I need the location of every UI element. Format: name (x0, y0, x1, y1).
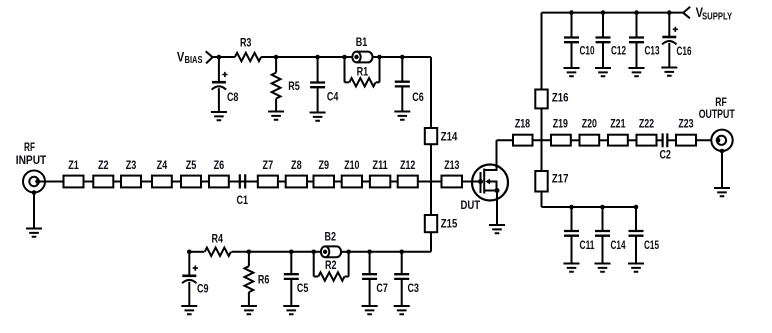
svg-text:Z17: Z17 (552, 173, 569, 186)
capacitor C7 (362, 274, 377, 279)
wire Z13 to DUT gate (462, 181, 481, 183)
ground at C9 (181, 306, 197, 314)
wire node to C4 (317, 57, 319, 83)
impedance element Z3 (121, 176, 141, 188)
wire C10 to ground (571, 42, 573, 68)
wire C4 node to B1 node (318, 56, 345, 58)
impedance element Z16 (535, 90, 547, 109)
svg-text:Z7: Z7 (263, 159, 274, 172)
capacitor C4 (310, 83, 325, 88)
svg-text:Z16: Z16 (552, 92, 569, 105)
svg-text:R1: R1 (357, 66, 369, 79)
wire Z20 to Z21 (599, 139, 608, 141)
wire C13 to ground (636, 42, 638, 68)
junction VBIAS / C8 (217, 55, 222, 60)
svg-text:C2: C2 (659, 149, 671, 162)
resistor R4 (205, 248, 231, 256)
wire C5 node to B2 node (291, 251, 313, 253)
svg-text:Z22: Z22 (639, 118, 655, 131)
resistor R5 (272, 73, 281, 99)
svg-text:Z5: Z5 (186, 159, 197, 172)
ground at C10 (564, 68, 580, 76)
svg-text:R2: R2 (325, 259, 337, 272)
svg-text:Z2: Z2 (98, 159, 109, 172)
capacitor C13 (629, 38, 644, 43)
wire Z21 to Z22 (628, 139, 637, 141)
ground at RF input (26, 229, 42, 237)
wire bead B1 to node (373, 56, 380, 58)
capacitor C11 (564, 231, 579, 236)
resistor R2 zigzag (318, 272, 344, 280)
wire C3 node to branch corner (402, 251, 431, 253)
svg-text:C15: C15 (644, 239, 659, 252)
impedance element Z1 (64, 176, 84, 188)
junction R3 / R5 (274, 55, 279, 60)
junction C9 / R4 (187, 250, 192, 255)
svg-text:Z8: Z8 (291, 159, 302, 172)
wire C7 to ground (369, 279, 371, 306)
wire C7 node to C3 node (370, 251, 402, 253)
wire connector to Z1 (38, 181, 64, 183)
resistor R1 (parallel with B1) (344, 57, 346, 82)
impedance element Z4 (152, 176, 172, 188)
svg-text:Z6: Z6 (214, 159, 225, 172)
svg-text:Z9: Z9 (318, 159, 329, 172)
wire connector shield to ground (33, 193, 35, 229)
wire B1 node to C6 node (380, 56, 403, 58)
wire top bias line to Z14 (430, 57, 432, 128)
DUT source stub (484, 190, 497, 192)
wire node to bead B2 (314, 251, 321, 253)
wire R6 to ground (248, 292, 250, 306)
capacitor C1 (series) (240, 174, 245, 188)
ground at RF output (714, 188, 730, 196)
svg-text:Z11: Z11 (373, 159, 389, 172)
ground at C7 (362, 306, 378, 314)
wire Z10 lead (334, 181, 342, 183)
ground at C13 (629, 68, 645, 76)
junction C6 (400, 55, 405, 60)
ground at C8 (211, 112, 227, 120)
wire node to C6 (401, 57, 403, 82)
resistor R3 (235, 53, 261, 61)
wire C16 to ground (668, 43, 670, 68)
junction B1/R1 left (342, 55, 347, 60)
ground at C14 (595, 264, 611, 272)
junction C14 (600, 205, 605, 210)
resistor R6 (245, 266, 254, 292)
ferrite bead B1 (357, 52, 373, 63)
junction C3 (399, 250, 404, 255)
svg-text:Z12: Z12 (400, 159, 416, 172)
svg-text:Z21: Z21 (610, 118, 626, 131)
impedance element Z17 (535, 171, 547, 192)
wire Z6 lead (201, 181, 209, 183)
wire node to C5 (290, 252, 292, 274)
wire Z5 lead (172, 181, 181, 183)
impedance element Z23 (676, 135, 696, 146)
wire output shield to ground (721, 151, 723, 188)
svg-text:C7: C7 (376, 282, 388, 295)
ground at C6 (394, 112, 410, 120)
svg-text:B2: B2 (325, 231, 337, 244)
wire C9 to ground (188, 282, 190, 306)
wire B2 node to C7 node (349, 251, 370, 253)
RF INPUT connector J1 (23, 171, 45, 193)
wire R5 node to C4 node (276, 56, 318, 58)
svg-text:INPUT: INPUT (16, 154, 47, 167)
junction C10 (569, 10, 574, 15)
wire Z23 to output connector (696, 139, 718, 141)
wire Z14 to main line to Z15 (430, 144, 432, 215)
wire rail to C10 (571, 13, 573, 38)
wire Z12 lead (390, 181, 397, 183)
svg-text:Z10: Z10 (344, 159, 360, 172)
impedance element Z9 (314, 176, 335, 188)
wire Z22 to C2 (657, 139, 663, 141)
svg-text:C3: C3 (407, 282, 419, 295)
ground at R6 (241, 306, 257, 314)
wire Z17 to bypass rail (541, 192, 543, 208)
svg-text:C12: C12 (611, 45, 626, 58)
ground at R5 (268, 112, 284, 120)
junction C12 (601, 10, 606, 15)
ground at C16 (661, 68, 677, 76)
svg-text:Z3: Z3 (126, 159, 137, 172)
VBIAS terminal arrow (206, 51, 213, 63)
wire C14 to ground (602, 236, 604, 264)
wire rail to C14 (602, 207, 604, 231)
capacitor C12 (596, 38, 611, 43)
impedance element Z6 (209, 176, 229, 188)
junction source/body (495, 188, 500, 193)
wire supply rail (542, 12, 684, 14)
junction R6 (247, 250, 252, 255)
svg-text:V: V (177, 49, 184, 64)
impedance element Z5 (181, 176, 201, 188)
wire rail to C12 (602, 13, 604, 38)
junction C16 (667, 10, 672, 15)
wire node to C9 (188, 252, 190, 276)
wire Z9 lead (307, 181, 314, 183)
svg-text:Z4: Z4 (157, 159, 168, 172)
wire node to C7 (369, 252, 371, 274)
svg-text:C13: C13 (645, 45, 660, 58)
RF OUTPUT connector J2 (711, 130, 732, 151)
capacitor C10 (564, 38, 579, 43)
ground at C12 (595, 68, 611, 76)
capacitor C5 (284, 274, 299, 279)
transistor DUT (MOSFET) (472, 165, 508, 201)
svg-text:C11: C11 (580, 239, 595, 252)
wire C11 to ground (571, 236, 573, 264)
svg-text:Z23: Z23 (678, 118, 694, 131)
wire Z4 lead (141, 181, 152, 183)
wire node to R6 (248, 252, 250, 266)
capacitor C2 (series) (663, 133, 668, 147)
ground at C15 (628, 264, 644, 272)
capacitor C16 (polarized) (662, 36, 676, 39)
svg-text:C14: C14 (611, 239, 626, 252)
capacitor C3 (394, 274, 409, 279)
svg-text:Z19: Z19 (553, 118, 569, 131)
svg-text:C5: C5 (297, 282, 309, 295)
wire Z12 to Z13 (418, 181, 442, 183)
impedance element Z2 (93, 176, 113, 188)
impedance element Z8 (286, 176, 307, 188)
wire node to R3 (219, 56, 235, 58)
wire bypass rail (542, 206, 637, 208)
junction at connector shield (32, 190, 37, 195)
wire C5 to ground (290, 279, 292, 306)
wire Z8 lead (278, 181, 286, 183)
junction C13 (634, 10, 639, 15)
svg-text:Z15: Z15 (441, 218, 458, 231)
ground at C11 (564, 264, 580, 272)
capacitor C6 (395, 82, 410, 87)
ground at C5 (283, 306, 299, 314)
svg-text:OUTPUT: OUTPUT (699, 108, 736, 121)
capacitor C9 (polarized) (182, 274, 196, 277)
impedance element Z11 (370, 176, 390, 188)
wire rail to C11 (571, 207, 573, 231)
ferrite bead B2 (325, 246, 341, 257)
wire bead B2 to node (341, 251, 349, 253)
wire Z2 lead (84, 181, 94, 183)
svg-text:SUPPLY: SUPPLY (702, 11, 732, 22)
junction B2/R2 right (346, 250, 351, 255)
impedance element Z20 (580, 135, 600, 146)
wire C4 to ground (317, 87, 319, 112)
svg-text:C6: C6 (412, 91, 424, 104)
svg-text:Z18: Z18 (515, 118, 531, 131)
wire rail to C16 (668, 13, 670, 37)
wire C2 to Z23 (667, 139, 676, 141)
wire C1 to Z7 (245, 181, 258, 183)
junction C4 (315, 55, 320, 60)
svg-text:C9: C9 (197, 283, 209, 296)
wire C8 to ground (218, 88, 220, 112)
wire R4 to R6 node (231, 251, 249, 253)
wire node to C3 (401, 252, 403, 274)
wire R6 node to C5 node (249, 251, 291, 253)
svg-text:Z1: Z1 (68, 159, 79, 172)
junction B1/R1 right (377, 55, 382, 60)
svg-text:Z13: Z13 (444, 159, 460, 172)
wire Z11 lead (362, 181, 370, 183)
svg-text:C16: C16 (677, 45, 692, 58)
svg-text:R6: R6 (258, 274, 270, 287)
wire node to C8 (218, 57, 220, 82)
impedance element Z10 (342, 176, 362, 188)
impedance element Z12 (398, 176, 418, 188)
impedance element Z15 (425, 215, 437, 232)
svg-text:R4: R4 (212, 233, 224, 246)
wire C6 node to branch corner (402, 56, 431, 58)
DUT channel bar (483, 169, 485, 194)
VSUPPLY terminal arrow (683, 7, 690, 18)
wire C6 to ground (401, 86, 403, 111)
wire Z16 to output line to Z17 (541, 108, 543, 171)
svg-text:Z20: Z20 (582, 118, 598, 131)
wire node to R4 (189, 251, 204, 253)
junction C7 (367, 250, 372, 255)
wire DUT source to ground (496, 191, 498, 226)
impedance element Z14 (425, 128, 437, 144)
junction at output shield (720, 149, 725, 154)
wire C12 to ground (602, 42, 604, 68)
junction gate lead (478, 179, 483, 184)
DUT body arrow (485, 179, 490, 185)
wire Z7 lead (229, 181, 258, 183)
wire C3 to ground (401, 279, 403, 306)
ground at DUT source (489, 225, 505, 233)
wire C15 to ground (635, 236, 637, 264)
ground at C3 (394, 306, 410, 314)
wire Z19 to Z20 (571, 139, 580, 141)
svg-text:Z14: Z14 (441, 130, 458, 143)
svg-text:DUT: DUT (461, 199, 481, 212)
svg-text:R5: R5 (288, 80, 300, 93)
wire rail to C13 (636, 13, 638, 38)
wire Z15 to bottom bias line (430, 232, 432, 252)
wire Z18 to Z19 (533, 139, 552, 141)
DUT drain stub (484, 140, 496, 170)
capacitor C14 (595, 231, 610, 236)
junction C5 (289, 250, 294, 255)
wire Z6 to C1 (229, 181, 240, 183)
svg-text:BIAS: BIAS (185, 55, 203, 66)
wire DUT drain to Z18 (497, 139, 514, 141)
svg-text:C1: C1 (237, 194, 249, 207)
capacitor C15 (629, 231, 644, 236)
impedance element Z18 (513, 135, 533, 146)
wire R5 to ground (275, 99, 277, 112)
svg-text:R3: R3 (240, 37, 252, 50)
svg-text:C10: C10 (580, 45, 595, 58)
svg-text:RF: RF (24, 141, 35, 154)
impedance element Z19 (551, 135, 571, 146)
wire node to bead B1 (345, 56, 353, 58)
wire rail to C15 (635, 207, 637, 231)
wire node to R5 (275, 57, 277, 73)
DUT gate bar (480, 172, 482, 193)
svg-text:C8: C8 (227, 91, 239, 104)
junction C15 (634, 205, 639, 210)
wire Z3 lead (113, 181, 121, 183)
impedance element Z21 (608, 135, 628, 146)
resistor R1 zigzag (349, 78, 375, 86)
junction C11 (569, 205, 574, 210)
ground at C4 (310, 113, 326, 121)
wire R3 to R5 node (261, 56, 276, 58)
wire VBIAS arrow to node (213, 56, 219, 58)
impedance element Z7 (258, 176, 278, 188)
capacitor C8 (polarized) (212, 81, 226, 84)
impedance element Z22 (637, 135, 657, 146)
impedance element Z13 (442, 176, 463, 188)
resistor R2 (parallel with B2) (313, 252, 315, 277)
svg-text:B1: B1 (356, 36, 368, 49)
wire supply rail to Z16 (541, 13, 543, 90)
junction B2/R2 left (311, 250, 316, 255)
svg-text:C4: C4 (327, 91, 339, 104)
